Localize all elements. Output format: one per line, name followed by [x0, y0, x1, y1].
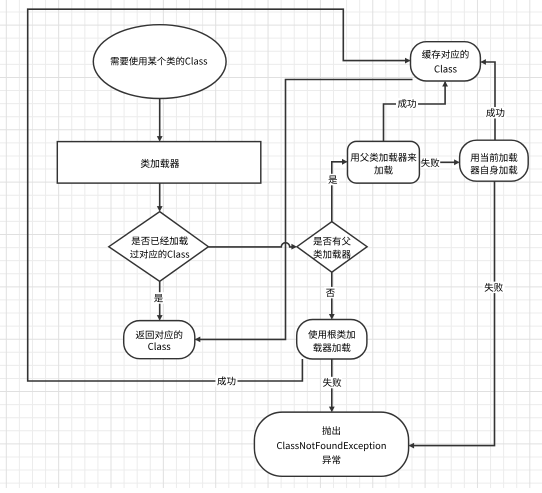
- node: diamond 是否有父类加载器: [297, 222, 367, 273]
- node: rounded rect 返回对应的Class: [124, 321, 195, 359]
- wire: 是否已经加载 -> 是否有父类加载器 (with hop): [208, 243, 297, 250]
- node: start ellipse 需要使用某个类的Class: [93, 25, 226, 99]
- node: rounded rect 缓存对应的Class: [411, 42, 481, 81]
- node: rounded rect 用当前加载器自身加载: [460, 140, 529, 181]
- node: diamond 是否已经加载过对应的Class: [109, 212, 209, 282]
- node: rounded rect 使用根类加载器加载: [297, 320, 367, 360]
- node: rectangle 类加载器: [57, 142, 260, 184]
- node: rounded rect 用父类加载器来加载: [348, 141, 420, 183]
- wire: start ellipse -> 类加载器: [157, 99, 163, 142]
- wire: 使用根类加载器加载 -失败-> 抛出ClassNotFoundException异常: [322, 359, 342, 412]
- wire: 用父类加载器来加载 -失败-> 用当前加载器自身加载: [419, 157, 459, 169]
- wire: 是否有父类加载器 -是-> 用父类加载器来加载: [327, 159, 348, 222]
- wire: 使用根类加载器加载 -成功-> 缓存对应的Class (big loop): [28, 9, 411, 387]
- wire: 用父类加载器来加载 -成功-> 缓存对应的Class: [384, 81, 449, 141]
- wire: 用当前加载器自身加载 -失败-> 抛出ClassNotFoundException异常: [409, 181, 505, 449]
- node: stadium 抛出ClassNotFoundException异常: [254, 412, 408, 476]
- wire: 是否已经加载 -是-> 返回对应的Class: [152, 281, 165, 320]
- wire: 类加载器 -> 是否已经加载过对应的Class: [157, 183, 163, 212]
- wire: 缓存对应的Class -> 返回对应的Class: [195, 80, 413, 343]
- wire: 是否有父类加载器 -否-> 使用根类加载器加载: [324, 272, 337, 319]
- wire: 用当前加载器自身加载 -成功-> 缓存对应的Class: [480, 59, 506, 140]
